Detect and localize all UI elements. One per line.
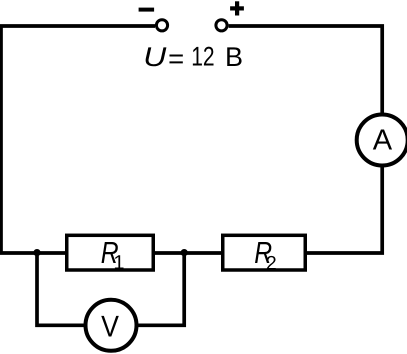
resistor R1	[67, 235, 154, 270]
svg-text:2: 2	[266, 252, 277, 274]
voltmeter V	[86, 300, 137, 351]
label R1	[101, 236, 119, 270]
wire top-left horizontal + left vertical + bottom-left to R1	[1, 26, 155, 253]
terminal right	[216, 20, 227, 31]
svg-text:1: 1	[113, 252, 124, 274]
wire top-right horizontal + right vertical to ammeter	[229, 26, 383, 114]
svg-text:A: A	[373, 124, 393, 156]
voltmeter branch right wire	[138, 251, 184, 325]
minus label	[139, 8, 155, 12]
label V	[101, 310, 119, 343]
terminal left	[156, 20, 167, 31]
svg-text:=: =	[168, 43, 184, 74]
ammeter A	[357, 115, 407, 166]
plus label	[230, 1, 244, 15]
svg-text:12: 12	[191, 42, 214, 72]
svg-text:U: U	[143, 42, 167, 72]
resistor R2	[223, 235, 306, 270]
label R2	[254, 236, 272, 270]
label U = 12 V	[143, 42, 167, 72]
svg-text:В: В	[225, 42, 243, 72]
svg-text:V: V	[101, 310, 119, 343]
wire between R1 and R2	[154, 251, 222, 255]
voltmeter branch left wire	[37, 251, 84, 325]
junction node left	[33, 249, 40, 256]
wire ammeter bottom to bottom-right corner to R2	[306, 166, 382, 253]
junction node right	[181, 249, 188, 256]
